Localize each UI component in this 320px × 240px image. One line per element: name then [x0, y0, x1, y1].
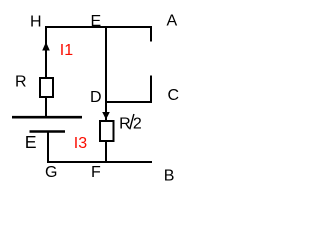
- arrow current direction into R/2 (down): [102, 112, 110, 120]
- wire D to C horizontal: [105, 101, 152, 103]
- wire right stub lower (C terminal): [150, 76, 152, 104]
- wire below R/2 to bottom rail: [105, 141, 107, 162]
- svg-text:D: D: [90, 89, 102, 106]
- wire bottom G-F-B rail: [47, 161, 152, 163]
- svg-text:E: E: [91, 13, 102, 30]
- wire right stub upper (A terminal): [150, 26, 152, 42]
- battery short plate: [30, 130, 66, 133]
- svg-text:I1: I1: [60, 42, 73, 59]
- svg-text:G: G: [45, 164, 57, 181]
- svg-text:F: F: [91, 164, 101, 181]
- svg-text:C: C: [168, 87, 180, 104]
- svg-text:H: H: [30, 13, 42, 30]
- svg-text:R: R: [119, 115, 131, 132]
- resistor R/2 (rectangle): [100, 121, 114, 141]
- resistor R (rectangle): [40, 78, 53, 97]
- svg-text:B: B: [164, 168, 175, 185]
- svg-text:A: A: [167, 13, 178, 30]
- wire top H-E-A rail: [45, 26, 152, 28]
- svg-text:R: R: [15, 74, 27, 91]
- battery long plate: [12, 116, 82, 119]
- arrow I1 current direction (up): [42, 42, 50, 51]
- svg-text:I3: I3: [74, 135, 87, 152]
- wire left branch vertical (H down to battery): [45, 26, 47, 117]
- wire battery to bottom rail: [47, 131, 49, 163]
- svg-text:E: E: [25, 132, 37, 152]
- svg-text:2: 2: [133, 115, 142, 132]
- wire middle branch vertical (E down through D): [105, 26, 107, 121]
